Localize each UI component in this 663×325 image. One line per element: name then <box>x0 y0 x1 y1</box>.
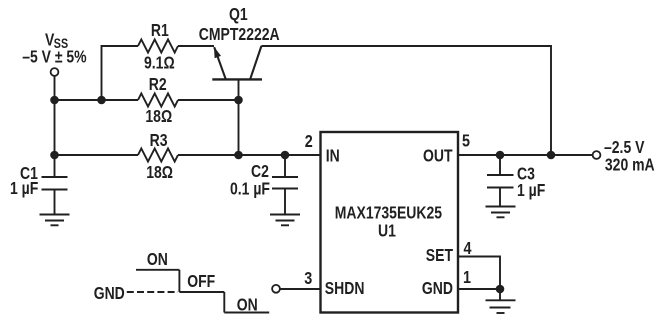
svg-text:GND: GND <box>422 280 453 299</box>
wire R1 branch vertical <box>102 46 139 100</box>
svg-text:MAX1735EUK25: MAX1735EUK25 <box>335 204 442 223</box>
svg-text:C2: C2 <box>251 163 269 182</box>
svg-text:SHDN: SHDN <box>325 280 365 299</box>
node junction collector feed <box>547 151 556 160</box>
wire GND dashed <box>127 291 178 293</box>
node junction base-R2 <box>234 96 243 105</box>
wire base vertical <box>238 79 240 155</box>
svg-text:–2.5 V: –2.5 V <box>604 138 645 157</box>
svg-text:18Ω: 18Ω <box>145 107 172 126</box>
wire collector top <box>261 46 551 155</box>
ground U1 <box>486 300 516 313</box>
ground C3 <box>486 207 516 218</box>
transistor Q1 <box>212 46 262 79</box>
svg-text:Q1: Q1 <box>229 6 248 25</box>
node junction R1 branch <box>97 96 106 105</box>
svg-text:18Ω: 18Ω <box>146 164 173 183</box>
svg-text:U1: U1 <box>378 222 396 241</box>
svg-text:320 mA: 320 mA <box>605 156 655 175</box>
wire ground stub <box>499 289 501 300</box>
svg-text:OFF: OFF <box>187 272 215 291</box>
svg-text:R3: R3 <box>150 132 168 151</box>
svg-text:2: 2 <box>305 132 313 152</box>
node junction vss-R3 <box>50 151 59 160</box>
ground C1 <box>40 215 70 226</box>
node junction vss-R2 <box>50 96 59 105</box>
wire SET pin <box>458 257 500 290</box>
wire OUT row <box>458 154 593 156</box>
svg-text:3: 3 <box>304 269 312 289</box>
op-amp U1 box <box>321 132 459 313</box>
resistor R3 <box>138 149 178 162</box>
resistor R2 <box>138 94 178 107</box>
wire R1 to emitter <box>178 45 214 47</box>
label VSS <box>45 31 68 51</box>
wire R2 row right <box>178 99 239 101</box>
waveform OFF level <box>179 291 224 293</box>
svg-text:9.1Ω: 9.1Ω <box>144 54 175 73</box>
waveform step 1 <box>178 270 180 292</box>
waveform step 2 <box>223 292 225 313</box>
svg-text:GND: GND <box>94 285 125 304</box>
capacitor C1 <box>42 177 68 215</box>
waveform ON level low <box>224 312 269 314</box>
wire R2 row left <box>55 99 139 101</box>
resistor R1 <box>138 40 178 53</box>
wire main row left <box>55 154 139 156</box>
svg-text:1 µF: 1 µF <box>10 180 39 199</box>
svg-text:1 µF: 1 µF <box>517 182 546 201</box>
svg-text:4: 4 <box>464 239 472 259</box>
svg-text:IN: IN <box>326 147 340 166</box>
svg-text:ON: ON <box>237 296 258 315</box>
node junction SET-GND <box>496 285 505 294</box>
capacitor C2 <box>272 155 298 215</box>
svg-text:ON: ON <box>147 251 168 270</box>
svg-text:OUT: OUT <box>423 147 453 166</box>
ground C2 <box>270 215 300 226</box>
terminal SHDN <box>272 285 280 293</box>
svg-text:SET: SET <box>426 247 453 266</box>
svg-text:0.1 µF: 0.1 µF <box>230 180 270 199</box>
wire GND pin <box>458 288 500 290</box>
capacitor C3 <box>487 155 514 207</box>
wire SHDN <box>280 288 321 290</box>
svg-text:R2: R2 <box>149 76 167 95</box>
svg-text:–5 V ± 5%: –5 V ± 5% <box>22 48 86 67</box>
node junction C2 tap <box>281 151 290 160</box>
svg-text:R1: R1 <box>151 22 169 41</box>
wire vss vertical <box>54 76 56 177</box>
node junction base-R3 <box>234 151 243 160</box>
node junction C3 tap <box>496 151 505 160</box>
svg-text:5: 5 <box>462 131 470 151</box>
wire main row right <box>178 154 321 156</box>
waveform ON level high <box>136 269 179 271</box>
svg-text:1: 1 <box>463 268 471 288</box>
terminal output <box>593 151 601 159</box>
terminal VSS <box>51 68 59 76</box>
svg-text:CMPT2222A: CMPT2222A <box>199 26 280 45</box>
